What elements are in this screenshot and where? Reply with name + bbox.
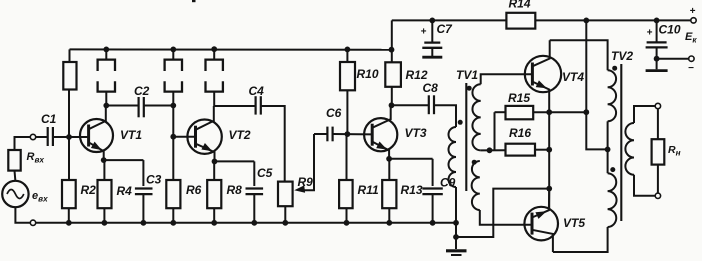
svg-text:VT4: VT4	[562, 70, 584, 84]
R15 left stub	[495, 111, 506, 113]
svg-text:R12: R12	[406, 68, 428, 82]
wire VT3 emitter to C9	[389, 159, 433, 186]
svg-text:TV2: TV2	[611, 49, 633, 63]
node VT2 emitter	[212, 159, 218, 165]
svg-text:+: +	[421, 27, 427, 38]
potentiometer R9	[278, 175, 313, 223]
svg-text:R2: R2	[81, 183, 97, 197]
node rail supply branch	[583, 18, 589, 24]
R15 right wire to supply branch	[533, 111, 586, 113]
load resistor R_н	[652, 109, 681, 194]
top supply rail right of R14	[535, 19, 691, 21]
svg-text:R8: R8	[227, 183, 243, 197]
wire to minus terminal	[657, 58, 689, 60]
resistor R16 (bias)	[506, 126, 536, 156]
svg-text:C5: C5	[257, 166, 273, 180]
wire C1 to VT1 base	[53, 136, 89, 138]
transistor VT2	[187, 106, 250, 161]
wire C2 to node	[144, 105, 174, 107]
TV2 primary tap wire	[607, 121, 609, 173]
node C10 minus wire	[654, 56, 660, 62]
resistor R12 (VT3 collector load)	[385, 20, 428, 105]
node R11 rail	[344, 220, 350, 226]
node VT2 base	[170, 134, 176, 140]
capacitor C4	[249, 84, 265, 115]
VT4 collector wire to TV2	[550, 40, 608, 70]
node VT3 collector	[389, 102, 395, 108]
R16 right stub	[535, 149, 549, 151]
wire node down to VT2 base	[172, 106, 174, 137]
TV1 phasing dot primary	[458, 120, 463, 125]
svg-text:R6: R6	[186, 183, 202, 197]
node C9 rail	[430, 220, 436, 226]
capacitor C10 (electrolytic)	[646, 20, 681, 70]
TV1 secondary lower half	[472, 161, 532, 225]
svg-text:VT1: VT1	[120, 128, 142, 142]
node supply branch	[583, 109, 589, 115]
TV2 phasing dot lower	[610, 167, 615, 172]
resistor R13 (VT3 emitter)	[382, 159, 423, 223]
node rail R5	[170, 47, 176, 53]
node R9 rail	[282, 220, 288, 226]
capacitor C1	[41, 112, 57, 146]
wire wiper to C6	[314, 133, 327, 135]
scan speck	[192, 0, 196, 2]
resistor R11 (VT3 lower bias)	[339, 134, 379, 223]
emitter ground return wire	[456, 189, 549, 237]
output terminal bottom	[655, 193, 660, 198]
TV1 primary winding	[449, 127, 456, 249]
svg-text:C7: C7	[437, 22, 454, 36]
R9 wiper arrow wire	[294, 134, 314, 193]
node rail R7	[211, 46, 217, 52]
supply branch to TV2 center tap	[586, 20, 607, 149]
svg-text:TV1: TV1	[456, 68, 478, 82]
resistor R1 (VT1 upper bias)	[63, 49, 76, 180]
TV2 core	[620, 64, 622, 221]
input terminal top	[30, 134, 35, 139]
capacitor C5 (emitter bypass)	[246, 166, 273, 223]
wire VT3 collector to C8	[392, 104, 429, 106]
VT5 collector wire to TV2 bottom	[553, 227, 608, 252]
terminal E_к minus	[688, 56, 694, 74]
wire terminal to C1	[36, 136, 47, 138]
svg-text:VT5: VT5	[563, 216, 585, 230]
resistor R15 (bias)	[506, 91, 534, 119]
resistor R14 (decoupling)	[506, 0, 535, 29]
bottom common rail	[36, 222, 456, 224]
node base VT1	[66, 134, 72, 140]
svg-text:C4: C4	[249, 84, 265, 98]
TV2 label	[611, 49, 633, 63]
resistor R_вх (source internal resistance)	[8, 150, 44, 171]
node VT1 collector	[103, 103, 109, 109]
AC signal source e_вх	[2, 181, 48, 207]
node R2 rail	[66, 220, 72, 226]
resistor R4 (VT1 emitter)	[98, 160, 133, 223]
node emitter bus R16	[546, 147, 552, 153]
resistor R2 (VT1 lower bias)	[62, 180, 96, 223]
svg-text:R10: R10	[357, 67, 379, 81]
transistor VT3	[364, 105, 427, 159]
wire C4 down to R9	[261, 106, 285, 182]
terminal E_к plus	[690, 6, 697, 23]
node R13 rail	[386, 220, 392, 226]
svg-text:R11: R11	[358, 183, 379, 197]
TV1 center tap wire	[481, 149, 506, 151]
input terminal bottom	[30, 220, 35, 225]
node rail junction R12	[389, 47, 395, 53]
capacitor C7 (electrolytic decoupling)	[421, 20, 454, 57]
node R6 rail	[170, 220, 176, 226]
node TV1 primary rail	[453, 220, 459, 226]
node center tap bus	[487, 147, 493, 153]
label E_к	[685, 31, 697, 45]
svg-text:−: −	[688, 63, 694, 74]
node emitter bus R15	[546, 109, 552, 115]
svg-text:C3: C3	[146, 173, 162, 187]
wire VT1 collector to C2	[106, 105, 138, 107]
node C2 R5	[170, 103, 176, 109]
wire C8 to TV1 primary	[434, 105, 456, 127]
node VT3 emitter	[386, 156, 392, 162]
TV2 phasing dot upper	[612, 66, 617, 71]
svg-text:R4: R4	[117, 184, 133, 198]
svg-text:R15: R15	[508, 91, 530, 105]
node emitter bus ground wire	[546, 186, 552, 192]
capacitor C9 (emitter bypass)	[422, 176, 455, 223]
resistor R6 (VT2 lower bias)	[166, 137, 201, 223]
output terminal top	[655, 103, 660, 108]
capacitor C8 (coupling to TV1)	[423, 81, 439, 114]
capacitor C3 (emitter bypass)	[135, 173, 162, 223]
node rail R3	[103, 47, 109, 53]
svg-text:C8: C8	[423, 81, 439, 95]
emitter bus VT4 VT5	[548, 111, 550, 210]
transistor VT4	[525, 40, 585, 111]
node TV2 center tap	[605, 147, 611, 153]
resistor R3 (VT1 collector load, bracket pair)	[98, 49, 115, 105]
transistor VT5	[524, 189, 585, 252]
TV2 primary lower half	[608, 173, 617, 227]
node rail C7	[429, 18, 435, 24]
node VT3 base	[345, 131, 351, 137]
node rail R10	[345, 47, 351, 53]
svg-text:R13: R13	[401, 183, 423, 197]
left supply rail	[70, 48, 392, 50]
svg-text:C10: C10	[659, 23, 681, 37]
svg-text:VT2: VT2	[229, 128, 251, 142]
svg-text:+: +	[647, 28, 653, 39]
svg-text:R14: R14	[509, 0, 531, 11]
wire VT2 base	[173, 136, 195, 138]
TV1 phasing dot secondary lower	[472, 160, 477, 165]
node C3 rail	[141, 220, 147, 226]
svg-text:VT3: VT3	[405, 126, 427, 140]
svg-text:R16: R16	[509, 126, 531, 140]
resistor R7 (VT2 collector load, bracket pair)	[206, 49, 223, 106]
TV1 secondary upper half	[472, 74, 532, 150]
resistor R8 (VT2 emitter)	[207, 162, 242, 223]
wire source bottom to bottom rail	[15, 207, 30, 223]
node TV1 primary wire	[453, 234, 459, 240]
top supply rail left of R14	[392, 19, 507, 21]
node R8 rail	[211, 220, 217, 226]
wire VT2 emitter to C5	[215, 161, 255, 186]
capacitor C2	[134, 84, 150, 117]
node rail C10	[654, 18, 660, 24]
bias bus vertical	[494, 112, 496, 150]
TV1 label	[456, 68, 478, 82]
wire R_вх up to input terminal	[15, 137, 31, 150]
TV2 secondary winding	[625, 106, 655, 196]
node R4 rail	[102, 220, 108, 226]
svg-text:C2: C2	[134, 84, 150, 98]
svg-text:R9: R9	[298, 175, 314, 189]
resistor R5 (VT2 upper bias, bracket pair)	[165, 49, 182, 105]
svg-text:+: +	[690, 6, 696, 17]
transistor VT1	[80, 106, 142, 161]
TV1 phasing dot secondary upper	[467, 86, 472, 91]
node C5 rail	[251, 220, 257, 226]
svg-text:C6: C6	[326, 106, 342, 120]
resistor R10 (VT3 upper bias)	[340, 49, 379, 134]
wire source top to R_вх	[14, 171, 17, 182]
TV1 core	[465, 83, 467, 191]
ground symbol	[446, 251, 467, 255]
capacitor C6	[326, 106, 342, 141]
node VT1 emitter	[101, 157, 107, 163]
wire VT1 emitter to C3	[104, 160, 144, 186]
wire C6 to VT3 base	[333, 133, 373, 135]
svg-text:C1: C1	[41, 112, 57, 126]
wire VT2 collector to C4	[214, 105, 255, 107]
TV2 primary upper half	[608, 70, 617, 121]
